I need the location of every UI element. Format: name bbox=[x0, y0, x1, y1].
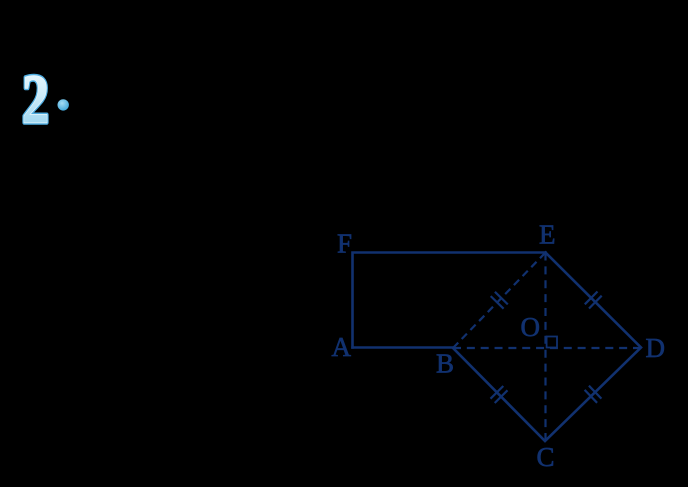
svg-text:O: O bbox=[521, 312, 541, 342]
svg-text:2: 2 bbox=[22, 60, 49, 138]
svg-text:E: E bbox=[539, 220, 556, 250]
svg-text:D: D bbox=[646, 333, 666, 363]
svg-text:C: C bbox=[537, 442, 555, 472]
svg-text:F: F bbox=[337, 229, 352, 259]
svg-text:A: A bbox=[332, 332, 352, 362]
svg-text:B: B bbox=[436, 349, 454, 379]
